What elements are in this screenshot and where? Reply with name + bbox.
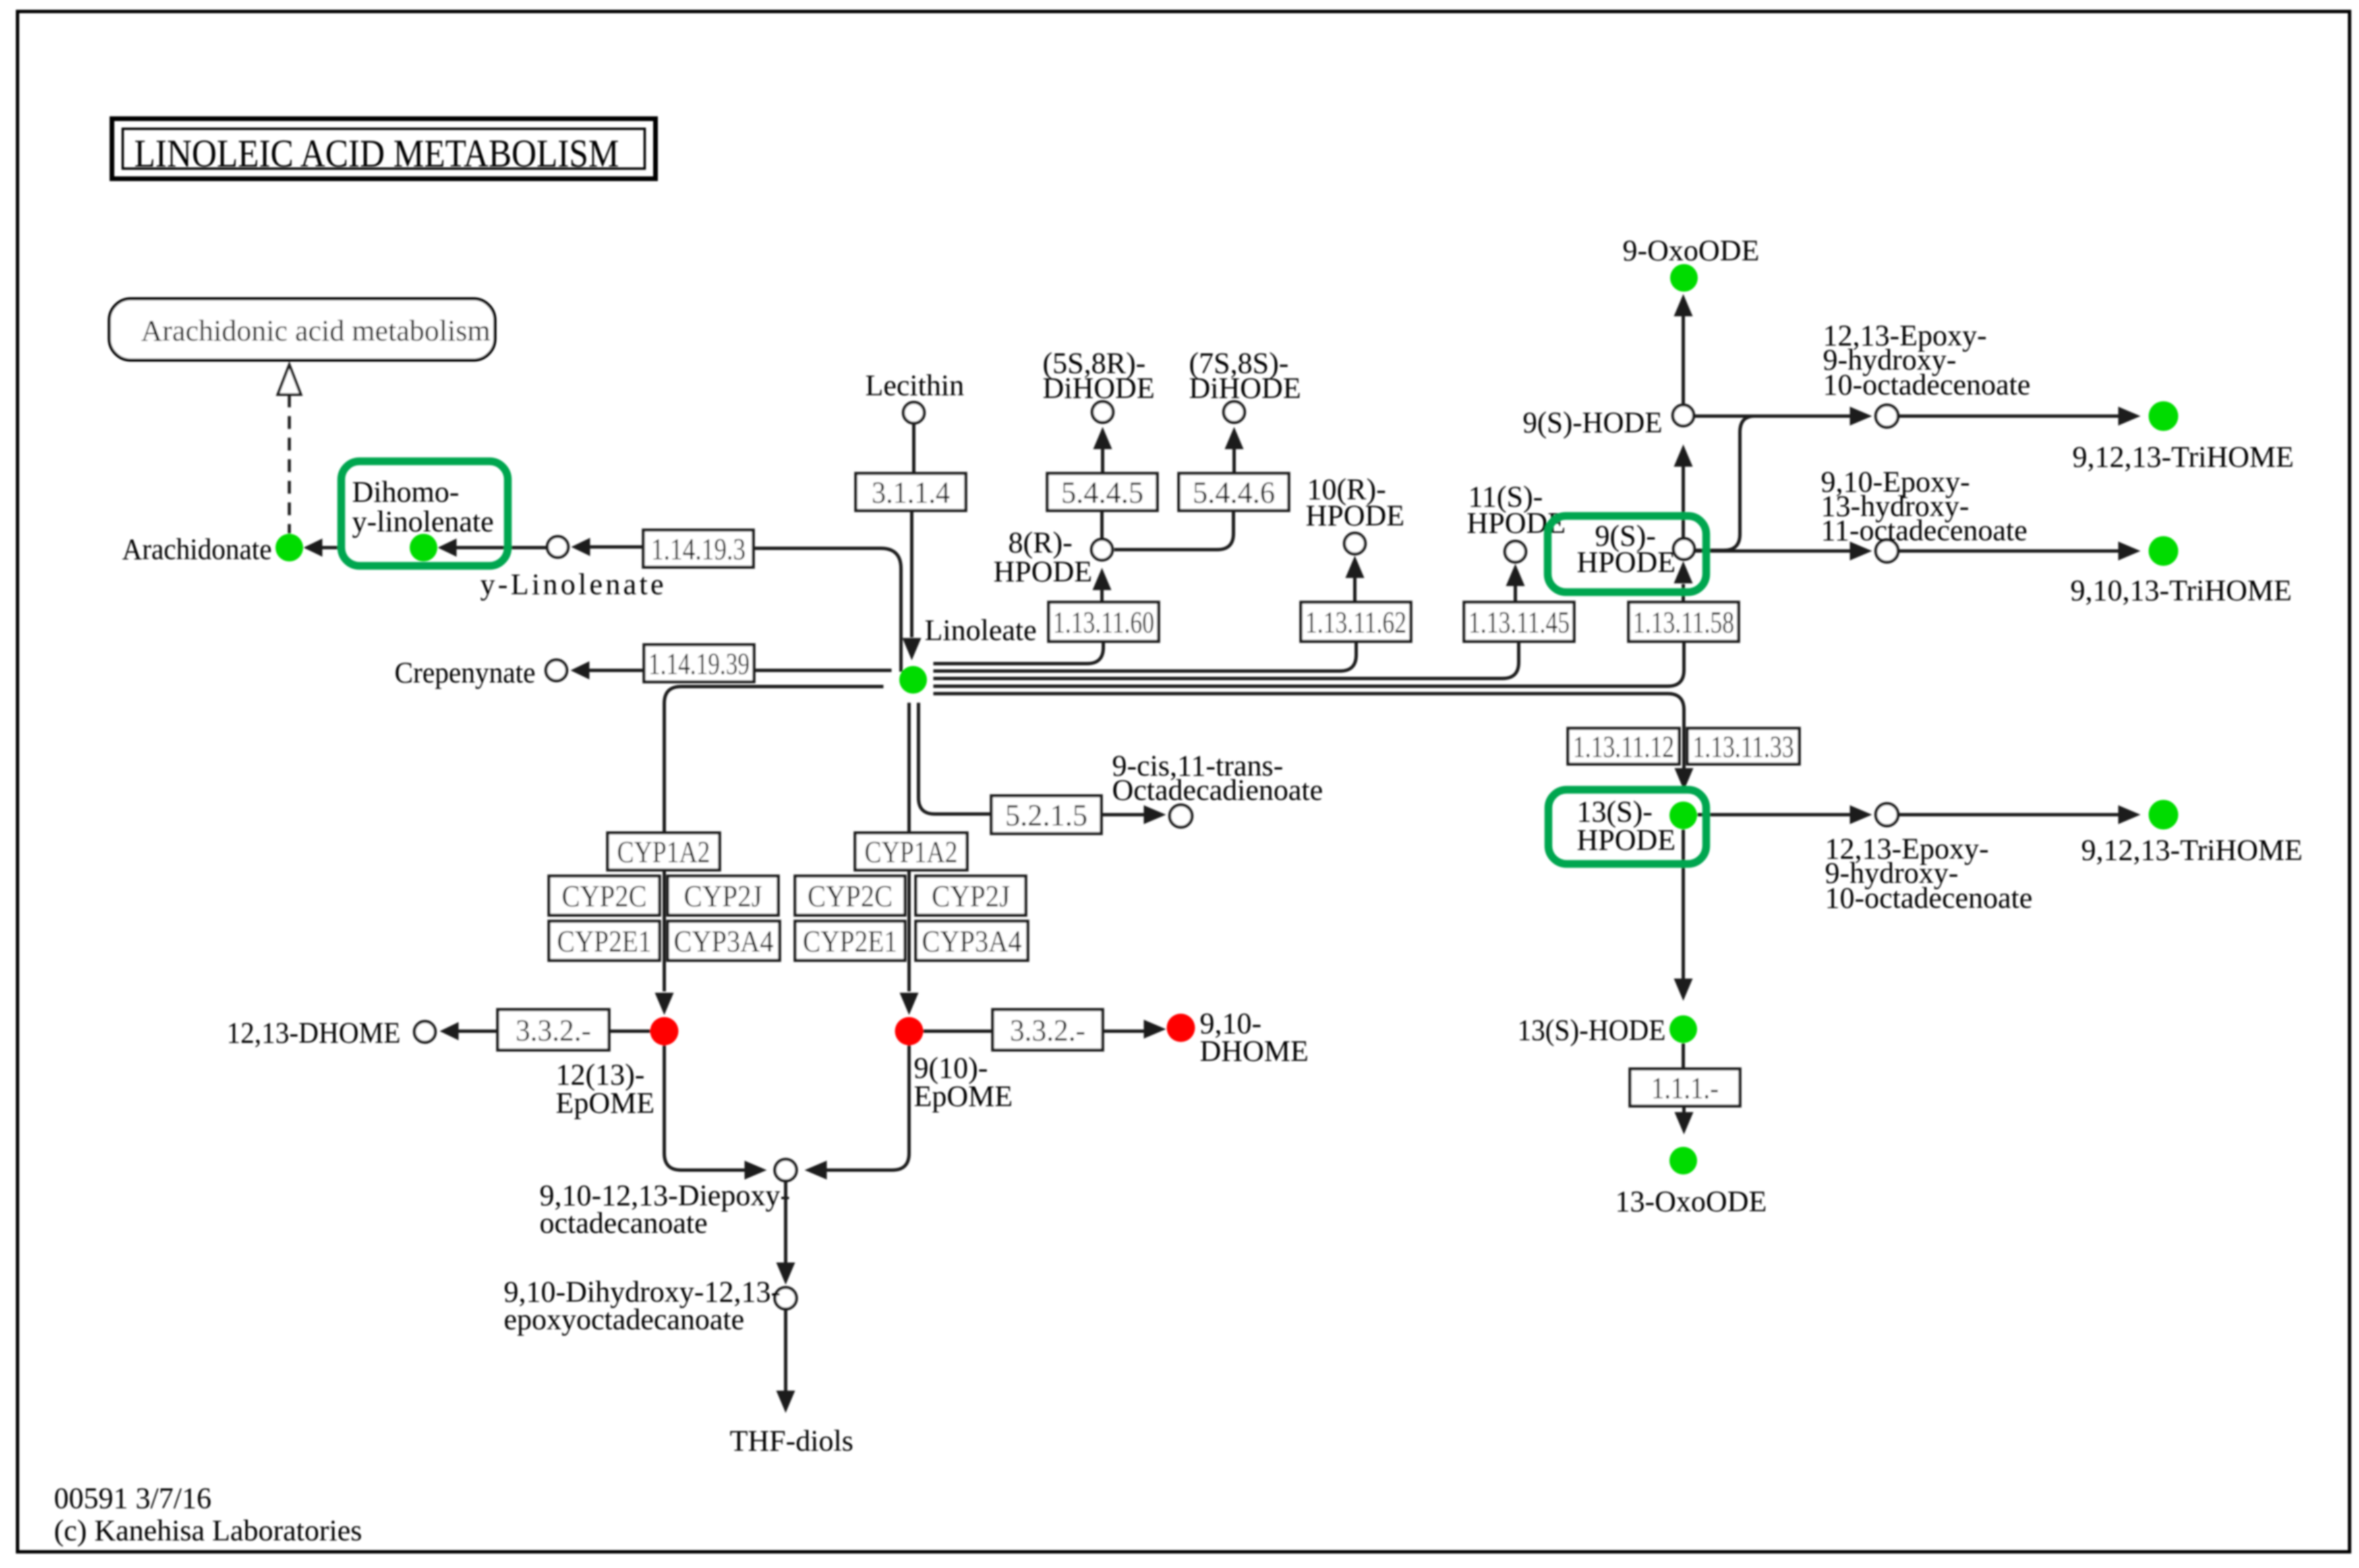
svg-text:5.4.4.6: 5.4.4.6 bbox=[1193, 475, 1275, 510]
compound node 9S-HODE bbox=[1673, 405, 1694, 426]
enzyme box 1.13.11.60 bbox=[1049, 602, 1159, 641]
wire dihomo dot to arachidonate dot bbox=[322, 546, 343, 550]
arrowhead into 13S-HPODE bbox=[1674, 768, 1693, 790]
svg-text:1.13.11.58: 1.13.11.58 bbox=[1633, 605, 1735, 639]
wire enzyme 1.13.11.58 to 9S arrow bbox=[1682, 584, 1685, 602]
compound node 9,10-12,13-diepoxyoctadecanoate bbox=[775, 1159, 796, 1181]
green highlight box 13S-HPODE bbox=[1548, 790, 1706, 864]
svg-text:(c) Kanehisa Laboratories: (c) Kanehisa Laboratories bbox=[54, 1514, 362, 1547]
arrowhead into 10R-HPODE bbox=[1345, 556, 1364, 578]
compound node Linoleate (green) bbox=[900, 666, 927, 694]
wire enzyme 3.3.2.- left to DHOME arrow bbox=[457, 1030, 499, 1033]
wire lecithin to enzyme 3.1.1.4 bbox=[912, 423, 916, 473]
svg-text:9-OxoODE: 9-OxoODE bbox=[1623, 234, 1759, 267]
arrowhead into 7S8S-DiHODE bbox=[1225, 427, 1244, 449]
enzyme box 3.3.2.- left bbox=[498, 1010, 609, 1050]
compound node Dihomo-gamma-linolenate (green) bbox=[410, 534, 438, 562]
svg-text:DiHODE: DiHODE bbox=[1189, 372, 1301, 405]
arrowhead into THF-diols bbox=[776, 1391, 795, 1413]
svg-text:Linoleate: Linoleate bbox=[925, 614, 1037, 647]
enzyme box 1.14.19.3 bbox=[643, 530, 753, 567]
svg-text:1.13.11.62: 1.13.11.62 bbox=[1306, 605, 1407, 639]
svg-text:Arachidonate: Arachidonate bbox=[122, 533, 272, 566]
arrowhead into 12,13-epoxy circle row3 bbox=[1850, 805, 1872, 824]
svg-text:Arachidonic acid metabolism: Arachidonic acid metabolism bbox=[141, 314, 490, 347]
arrowhead into dihydroxy node bbox=[776, 1262, 795, 1285]
svg-text:3.1.1.4: 3.1.1.4 bbox=[872, 475, 950, 510]
svg-text:HPODE: HPODE bbox=[993, 555, 1093, 588]
wire enzyme 1.13.11.62 to 10R arrow bbox=[1353, 578, 1357, 602]
svg-text:9,12,13-TriHOME: 9,12,13-TriHOME bbox=[2081, 834, 2302, 867]
label 10(R)-HPODE bbox=[1306, 473, 1405, 532]
label 8(R)-HPODE bbox=[993, 526, 1093, 588]
svg-text:3.3.2.-: 3.3.2.- bbox=[1010, 1013, 1086, 1047]
label 9,10-12,13-diepoxyoctadecanoate bbox=[540, 1179, 790, 1240]
wire diepoxy to dihydroxy node bbox=[784, 1181, 788, 1263]
enzyme box 1.13.11.33 bbox=[1687, 728, 1799, 764]
svg-text:octadecanoate: octadecanoate bbox=[540, 1207, 707, 1240]
svg-text:13(S)-HODE: 13(S)-HODE bbox=[1517, 1014, 1666, 1047]
dashed wire to arachidonic acid metabolism bbox=[288, 395, 291, 533]
svg-text:1.14.19.39: 1.14.19.39 bbox=[649, 647, 750, 681]
enzyme box 3.3.2.- right bbox=[993, 1010, 1103, 1050]
svg-text:CYP2E1: CYP2E1 bbox=[557, 924, 651, 958]
enzyme box 1.14.19.39 bbox=[644, 645, 754, 682]
enzyme box 1.13.11.45 bbox=[1464, 602, 1574, 641]
arrowhead into 13-OxoODE bbox=[1674, 1112, 1693, 1134]
gene box CYP1A2 left bbox=[608, 833, 720, 870]
compound node 9-cis,11-trans-octadecadienoate bbox=[1170, 805, 1192, 827]
arrowhead into 9S-HPODE bbox=[1674, 561, 1693, 583]
wire enzyme 1.14.19.3 to linoleate hub bbox=[753, 548, 901, 672]
enzyme box 5.2.1.5 bbox=[991, 796, 1101, 834]
arrowhead into 11S-HPODE bbox=[1506, 564, 1525, 586]
compound node 12,13-epoxy-9-hydroxy-10-octadecenoate row3 bbox=[1876, 804, 1898, 826]
wire hub to left CYP column bbox=[664, 687, 883, 991]
enzyme box 1.13.11.58 bbox=[1629, 602, 1739, 641]
svg-text:3.3.2.-: 3.3.2.- bbox=[516, 1013, 591, 1047]
svg-text:HPODE: HPODE bbox=[1306, 499, 1405, 532]
label 9,10-DHOME bbox=[1200, 1007, 1308, 1068]
compound node 9-OxoODE (green) bbox=[1670, 264, 1698, 292]
svg-text:9,10,13-TriHOME: 9,10,13-TriHOME bbox=[2070, 574, 2292, 607]
wire 9(10)-EpOME to enzyme 3.3.2.- right bbox=[923, 1030, 993, 1033]
svg-text:12,13-DHOME: 12,13-DHOME bbox=[227, 1016, 401, 1049]
compound node Crepenynate bbox=[546, 660, 567, 681]
compound node 9S-HPODE bbox=[1674, 539, 1695, 560]
compound node 12(13)-EpOME (red) bbox=[650, 1017, 678, 1045]
wire 12(13)-EpOME to diepoxy node bbox=[664, 1045, 747, 1170]
svg-text:THF-diols: THF-diols bbox=[730, 1424, 853, 1457]
gene box CYP1A2 right bbox=[855, 833, 967, 870]
arrowhead right into diepoxy node bbox=[805, 1161, 827, 1180]
enzyme box 5.4.4.5 bbox=[1047, 473, 1157, 511]
wire 9(10)-EpOME to diepoxy node bbox=[826, 1045, 909, 1170]
label 12,13-epoxy row3 bbox=[1825, 832, 2033, 914]
gene box CYP2C right bbox=[795, 876, 905, 915]
wire enzyme 5.4.4.6 to 8R-HPODE bbox=[1114, 511, 1233, 550]
wire 9S-HPODE to epoxy circle row2 bbox=[1695, 550, 1851, 553]
gene box CYP2E1 right bbox=[795, 921, 905, 960]
compound node 13S-HPODE (green) bbox=[1670, 802, 1697, 830]
compound node 7S8S-DiHODE bbox=[1224, 402, 1245, 423]
svg-text:5.2.1.5: 5.2.1.5 bbox=[1006, 798, 1088, 832]
wire gamma-linolenate to dihomo box bbox=[456, 546, 546, 550]
svg-text:CYP3A4: CYP3A4 bbox=[674, 924, 774, 958]
compound node 8R-HPODE bbox=[1092, 540, 1113, 560]
svg-text:CYP1A2: CYP1A2 bbox=[865, 835, 958, 869]
svg-text:EpOME: EpOME bbox=[914, 1080, 1013, 1113]
arrowhead into linoleate hub bbox=[902, 638, 921, 660]
svg-text:Crepenynate: Crepenynate bbox=[395, 656, 535, 689]
compound node 9,12,13-TriHOME (green) bbox=[2149, 401, 2178, 431]
arrowhead into 9-OxoODE bbox=[1674, 294, 1693, 316]
compound node 5S8R-DiHODE bbox=[1093, 402, 1113, 423]
arrowhead into 13S-HODE bbox=[1674, 979, 1693, 1001]
gene box CYP2J left bbox=[668, 876, 778, 915]
arrowhead into arachidonate bbox=[303, 539, 322, 557]
pathway box Arachidonic acid metabolism bbox=[109, 299, 495, 360]
svg-text:CYP2E1: CYP2E1 bbox=[803, 924, 898, 958]
compound node 9,10-DHOME (red) bbox=[1167, 1014, 1195, 1042]
compound node Lecithin bbox=[904, 403, 925, 424]
enzyme box 3.1.1.4 bbox=[856, 473, 966, 511]
compound node 9,10-epoxy-13-hydroxy-11-octadecenoate bbox=[1876, 540, 1898, 562]
wire 9S-HPODE to 9S-HODE arrow bbox=[1682, 467, 1685, 538]
svg-text:1.13.11.33: 1.13.11.33 bbox=[1693, 730, 1794, 764]
svg-text:1.1.1.-: 1.1.1.- bbox=[1652, 1071, 1719, 1105]
svg-text:11-octadecenoate: 11-octadecenoate bbox=[1821, 514, 2027, 547]
svg-text:Dihomo-: Dihomo- bbox=[352, 475, 459, 509]
wire 12(13)-EpOME to enzyme 3.3.2.- left bbox=[609, 1030, 650, 1033]
svg-text:y-Linolenate: y-Linolenate bbox=[480, 568, 664, 601]
arrowhead into 5S8R-DiHODE bbox=[1093, 427, 1112, 449]
wire hub to enzyme 1.13.11.58 bbox=[933, 641, 1684, 687]
enzyme box 1.13.11.12 bbox=[1568, 728, 1679, 764]
gene box CYP2C left bbox=[549, 876, 660, 915]
label 9-cis,11-trans-octadecadienoate bbox=[1112, 749, 1323, 807]
wire 9S-HODE to 9-OxoODE bbox=[1682, 316, 1685, 405]
svg-text:HPODE: HPODE bbox=[1577, 823, 1676, 856]
svg-text:HPODE: HPODE bbox=[1577, 546, 1676, 579]
wire enzyme 1.1.1.- to 13-OxoODE bbox=[1683, 1106, 1686, 1113]
compound node 9(10)-EpOME (red) bbox=[895, 1017, 923, 1045]
wire hub to enzyme 1.13.11.62 bbox=[933, 641, 1356, 671]
wire 5S8R arrow to enzyme 5.4.4.5 bbox=[1101, 449, 1105, 473]
svg-text:Octadecadienoate: Octadecadienoate bbox=[1112, 774, 1323, 807]
arrowhead into 9,10,13-TriHOME bbox=[2118, 542, 2140, 560]
enzyme box 5.4.4.6 bbox=[1179, 473, 1289, 511]
svg-text:CYP2J: CYP2J bbox=[684, 879, 762, 913]
label 9(S)-HPODE bbox=[1577, 519, 1676, 579]
label (7S,8S)-DiHODE bbox=[1189, 347, 1301, 405]
enzyme box 1.1.1.- bbox=[1630, 1069, 1740, 1106]
wire enzyme 3.1.1.4 to linoleate bbox=[910, 511, 914, 637]
wire 13S-HODE to enzyme 1.1.1.- bbox=[1682, 1043, 1685, 1069]
wire enzyme 1.14.19.39 to crepenynate arrow bbox=[588, 669, 645, 672]
label 9,10-dihydroxy-12,13-epoxyoctadecanoate bbox=[504, 1275, 781, 1336]
svg-text:DHOME: DHOME bbox=[1200, 1035, 1308, 1068]
arrowhead into 9-cis,11-trans-octadecadienoate bbox=[1144, 805, 1166, 824]
enzyme box 1.13.11.62 bbox=[1301, 602, 1411, 641]
arrowhead into gamma-linolenate bbox=[571, 538, 590, 556]
arrowhead into 9,10-epoxy circle bbox=[1850, 542, 1872, 560]
svg-text:LINOLEIC ACID METABOLISM: LINOLEIC ACID METABOLISM bbox=[134, 132, 619, 175]
gene box CYP3A4 right bbox=[916, 921, 1028, 960]
arrowhead into 9S-HODE bbox=[1674, 444, 1693, 467]
green highlight box Dihomo-gamma-linolenate bbox=[341, 461, 508, 566]
svg-text:1.13.11.60: 1.13.11.60 bbox=[1053, 605, 1155, 639]
svg-text:1.14.19.3: 1.14.19.3 bbox=[651, 532, 746, 567]
compound node 10R-HPODE bbox=[1345, 533, 1366, 554]
label 12(13)-EpOME bbox=[556, 1058, 655, 1120]
arrowhead into 12,13-epoxy circle bbox=[1850, 407, 1872, 426]
svg-text:CYP2C: CYP2C bbox=[808, 879, 893, 913]
wire hub to enzyme 1.13.11.60 bbox=[933, 641, 1103, 664]
svg-text:CYP2C: CYP2C bbox=[562, 879, 647, 913]
arrowhead into 9,12,13-TriHOME bbox=[2118, 407, 2140, 426]
svg-text:DiHODE: DiHODE bbox=[1043, 372, 1155, 405]
svg-text:CYP2J: CYP2J bbox=[932, 879, 1010, 913]
arrowhead into 9,10-DHOME bbox=[1144, 1020, 1166, 1039]
svg-text:9(S)-HODE: 9(S)-HODE bbox=[1523, 406, 1662, 439]
svg-text:8(R)-: 8(R)- bbox=[1008, 526, 1072, 559]
svg-text:EpOME: EpOME bbox=[556, 1086, 655, 1120]
wire epoxy circle2 to 9,10,13-TriHOME bbox=[1898, 550, 2119, 553]
gene box CYP3A4 left bbox=[668, 921, 780, 960]
arrowhead into 12,13-DHOME bbox=[440, 1022, 459, 1041]
svg-text:1.13.11.12: 1.13.11.12 bbox=[1573, 730, 1674, 764]
wire 8R-HPODE to enzyme 5.4.4.5 bbox=[1101, 511, 1104, 540]
arrowhead into 12(13)-EpOME bbox=[655, 993, 674, 1015]
wire hub to enzymes 1.13.11.12/33 bbox=[933, 694, 1684, 770]
wire 13S-HPODE to epoxy circle row3 bbox=[1697, 813, 1851, 817]
wire hub to enzyme 5.2.1.5 bbox=[919, 703, 991, 814]
wire 9S-HPODE up to HODE row bbox=[1695, 416, 1753, 550]
svg-text:Lecithin: Lecithin bbox=[865, 369, 964, 402]
compound node 12,13-epoxy-9-hydroxy-10-octadecenoate bbox=[1876, 405, 1898, 428]
compound node gamma-Linolenate bbox=[548, 537, 569, 558]
gene box CYP2J right bbox=[916, 876, 1026, 915]
compound node 9,10-dihydroxy-12,13-epoxyoctadecanoate bbox=[775, 1287, 796, 1309]
label 11(S)-HPODE bbox=[1467, 480, 1566, 540]
gene box CYP2E1 left bbox=[549, 921, 660, 960]
wire enzyme 3.3.2.- right to 9,10-DHOME bbox=[1103, 1030, 1146, 1033]
compound node Arachidonate (green) bbox=[276, 534, 303, 562]
label (5S,8R)-DiHODE bbox=[1043, 347, 1155, 405]
arrowhead left into diepoxy node bbox=[745, 1161, 767, 1180]
arrowhead into 9(10)-EpOME bbox=[900, 993, 919, 1015]
wire hub to right CYP column bbox=[908, 703, 911, 991]
svg-text:00591 3/7/16: 00591 3/7/16 bbox=[54, 1482, 211, 1515]
wire hub to enzyme 1.14.19.39 bbox=[754, 669, 892, 672]
label 12,13-epoxy-9-hydroxy-10-octadecenoate bbox=[1823, 319, 2031, 401]
wire enzyme 1.13.11.60 to 8R arrow bbox=[1101, 590, 1104, 602]
wire dihydroxy node to THF-diols bbox=[784, 1309, 788, 1391]
map id and copyright bbox=[54, 1482, 362, 1547]
wire 13S-HPODE to 13S-HODE bbox=[1682, 830, 1685, 979]
arrowhead into dihomo-gamma-linolenate bbox=[438, 539, 457, 557]
svg-text:CYP3A4: CYP3A4 bbox=[922, 924, 1022, 958]
wire epoxy circle3 to 9,12,13-TriHOME bbox=[1898, 813, 2119, 817]
svg-text:y-linolenate: y-linolenate bbox=[352, 505, 494, 538]
label Dihomo-gamma-linolenate bbox=[352, 475, 494, 538]
compound node 11S-HPODE bbox=[1505, 542, 1526, 562]
svg-text:1.13.11.45: 1.13.11.45 bbox=[1469, 605, 1570, 639]
compound node 12,13-DHOME bbox=[415, 1022, 436, 1043]
compound node 9,10,13-TriHOME (green) bbox=[2149, 536, 2178, 566]
wire hub to enzyme 1.13.11.45 bbox=[933, 641, 1519, 678]
compound node 9,12,13-TriHOME row3 (green) bbox=[2149, 800, 2178, 830]
svg-text:epoxyoctadecanoate: epoxyoctadecanoate bbox=[504, 1303, 745, 1336]
compound node 13S-HODE (green) bbox=[1670, 1016, 1697, 1043]
wire epoxy circle to 9,12,13-TriHOME bbox=[1898, 415, 2119, 418]
title box bbox=[112, 119, 656, 179]
green highlight box 9S-HPODE bbox=[1548, 516, 1706, 592]
open arrowhead into pathway box bbox=[278, 365, 301, 395]
arrowhead into crepenynate bbox=[571, 662, 589, 680]
compound node 13-OxoODE (green) bbox=[1670, 1147, 1697, 1175]
svg-text:10-octadecenoate: 10-octadecenoate bbox=[1825, 881, 2033, 914]
svg-text:5.4.4.5: 5.4.4.5 bbox=[1061, 475, 1144, 510]
label 13(S)-HPODE bbox=[1577, 795, 1676, 856]
wire 7S8S arrow to enzyme 5.4.4.6 bbox=[1233, 449, 1236, 473]
wire enzyme 5.2.1.5 to 9-cis circle bbox=[1101, 813, 1146, 817]
svg-text:9,12,13-TriHOME: 9,12,13-TriHOME bbox=[2072, 440, 2294, 473]
svg-text:CYP1A2: CYP1A2 bbox=[617, 835, 710, 869]
svg-text:13-OxoODE: 13-OxoODE bbox=[1615, 1185, 1767, 1218]
arrowhead into 8R-HPODE bbox=[1093, 568, 1111, 590]
label 9(10)-EpOME bbox=[914, 1051, 1013, 1113]
wire enzyme 1.13.11.45 to 11S arrow bbox=[1514, 586, 1517, 602]
arrowhead into 9,12,13-TriHOME row3 bbox=[2118, 805, 2140, 824]
svg-text:10-octadecenoate: 10-octadecenoate bbox=[1823, 368, 2031, 401]
wire 9S-HODE to epoxy circle bbox=[1694, 415, 1851, 418]
label 9,10-epoxy-13-hydroxy-11-octadecenoate bbox=[1821, 465, 2027, 547]
wire circle to enzyme 1.14.19.3 bbox=[590, 546, 645, 549]
